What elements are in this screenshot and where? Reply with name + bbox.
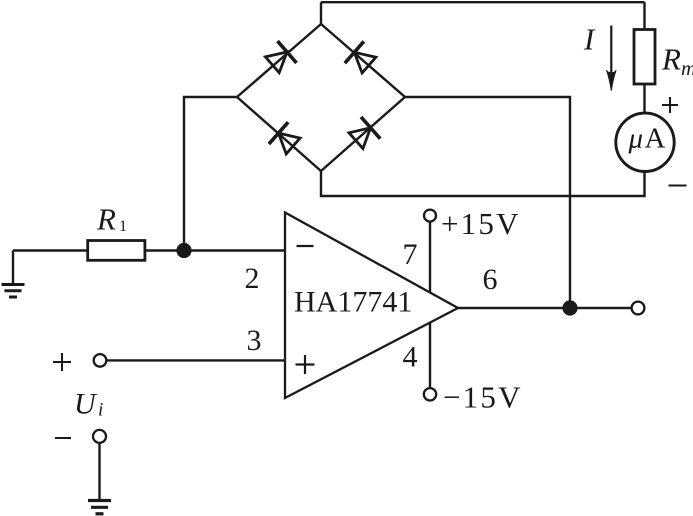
label R1 [96,202,127,237]
terminal Ui minus [93,430,106,443]
diode D4 [321,97,405,171]
wire top bus [321,1,645,3]
wire bus to Rm [643,2,645,30]
ammeter µA [616,113,674,171]
diode D3 [237,97,321,171]
svg-text:R: R [96,202,116,237]
wire bridge left to inverting node [184,97,237,251]
svg-text:i: i [98,400,103,421]
svg-text:m: m [681,56,693,80]
terminal +15V [424,210,436,222]
wire meter to bridge bottom [321,170,645,196]
op-amp non-inverting input sign [296,355,315,374]
terminal -15V [424,388,436,400]
svg-text:2: 2 [245,262,260,295]
terminal output [632,302,645,315]
svg-text:R: R [661,42,681,77]
label µA [628,123,666,155]
svg-text:μ: μ [628,123,644,155]
ground (left) [2,251,25,298]
svg-text:1: 1 [119,218,127,235]
wire pin 4 to -15V terminal [429,322,431,388]
svg-text:3: 3 [247,324,262,357]
wire bridge right to output node [405,97,570,308]
svg-text:6: 6 [483,263,498,296]
label minus (meter terminal) [669,185,687,187]
wire ground to R1 [13,249,88,251]
current arrow I [607,26,617,91]
svg-text:4: 4 [403,341,418,374]
svg-text:A: A [645,123,666,155]
label plus (meter terminal) [662,97,678,113]
label minus (input Ui) [55,437,71,439]
op-amp inverting input sign [297,245,314,247]
ground (bottom) [88,501,111,514]
svg-text:U: U [74,388,98,421]
node junction dot inverting input [176,243,191,258]
svg-text:−15V: −15V [443,380,523,415]
node junction dot output [562,300,577,315]
svg-text:HA17741: HA17741 [294,286,412,319]
wire op-amp output pin 6 [458,307,632,309]
svg-text:7: 7 [403,238,418,271]
wire Ui minus to ground [98,443,100,500]
wire pin 7 to +15V terminal [429,222,431,294]
op-amp U1 HA17741 [285,213,458,399]
wire bridge top stub [320,2,322,25]
label plus (input Ui) [53,353,71,371]
label Rm [661,42,693,81]
wire Ui to op-amp non-inverting input pin 3 [106,359,285,361]
wire Rm to meter [643,84,645,114]
diode D2 [321,24,405,97]
label Ui [74,388,103,421]
resistor R1 [88,241,145,261]
terminal Ui plus [94,354,107,367]
wire R1 to op-amp inverting input pin 2 [145,249,285,251]
resistor Rm [634,30,655,85]
svg-text:I: I [583,22,596,57]
svg-text:+15V: +15V [441,206,521,241]
diode D1 [237,24,321,97]
